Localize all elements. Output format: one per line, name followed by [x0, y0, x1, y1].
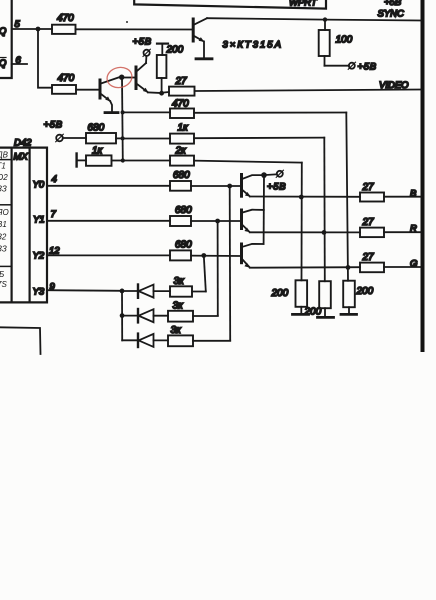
resistor 200 (R pulldown) — [319, 281, 331, 308]
wire to column B2 — [194, 161, 302, 163]
resistor 100 — [319, 20, 353, 66]
resistor 3k (row3) — [168, 335, 193, 346]
wire +5V bus to collectors — [263, 175, 265, 244]
+5V terminal at Q2 collector — [144, 50, 150, 56]
IC D42 multiplexer box — [0, 148, 47, 303]
wire pin6 stub — [12, 63, 27, 65]
IC U2 WPRT box (clipped top) — [134, 0, 326, 9]
wire Q6 emitter row (G) — [250, 266, 360, 269]
wire Y0 node down to diode row3 — [229, 186, 232, 341]
wire Y3 diode bus — [121, 291, 123, 340]
wire — [63, 137, 86, 139]
transistor Q6 (G follower) — [242, 244, 264, 268]
node Y2 junction — [201, 253, 206, 258]
wire to Q4 base — [191, 185, 240, 187]
node junction G/200 — [346, 265, 351, 270]
resistor 1k (mix R) — [123, 138, 170, 140]
resistor 1k (stub) — [86, 155, 112, 165]
+5V terminal at R100 — [349, 63, 355, 69]
resistor 680 (Y0) — [170, 181, 191, 191]
wire — [77, 159, 86, 161]
resistor 470 (mix B) — [123, 111, 171, 113]
node C junction (video emitter node) — [159, 91, 164, 96]
resistor 200 (G pulldown) — [343, 281, 355, 308]
transistor Q3 (sync) — [193, 18, 207, 58]
wire Y1 node down to diode row2 — [217, 221, 219, 316]
wire Q5 emitter row (R) — [250, 231, 360, 233]
wire G out — [384, 266, 421, 268]
wire Q4 emitter row (B) — [250, 196, 360, 198]
node junction sync/R100 — [323, 17, 327, 21]
wire — [112, 160, 124, 162]
wire vertical to B emitter — [301, 163, 303, 281]
+5V terminal at followers — [264, 173, 277, 176]
node B junction (Q1 collector / Q2 base) — [119, 75, 124, 80]
wire B out — [384, 196, 421, 198]
wire vertical to R emitter — [323, 138, 326, 282]
wire to column B — [194, 112, 346, 114]
transistor Q2 — [124, 56, 161, 93]
wire to column R — [194, 137, 324, 140]
D42 left pin labels (clipped) — [0, 151, 9, 290]
wire to Q5 base — [191, 220, 240, 222]
wire to Q6 base — [191, 255, 240, 257]
wire to Q1 base — [76, 89, 99, 91]
resistor 200 (B pulldown) — [296, 280, 308, 307]
resistor 27 (video out) — [169, 87, 195, 96]
node junction B/200 — [299, 195, 304, 200]
ground R — [324, 308, 326, 316]
wire summing bus — [121, 78, 124, 161]
node junctions on bus — [121, 136, 125, 140]
node Y3 junction — [120, 289, 125, 294]
wire row1 up to Y2 — [192, 290, 206, 292]
transistor Q5 (R follower) — [242, 210, 264, 233]
D42 inner dividers — [0, 160, 12, 267]
resistor 27 (B) — [360, 193, 384, 202]
wire corner bottom left — [0, 327, 41, 354]
transistor Q4 (B follower) — [242, 175, 265, 197]
ground B — [300, 307, 302, 314]
resistor 680 (Y2) — [170, 250, 191, 260]
wire node down — [38, 29, 52, 88]
resistor 3k (row2) — [168, 311, 193, 322]
speck — [126, 21, 128, 23]
diode VD2 — [122, 309, 168, 322]
node junction diode row2 — [120, 313, 125, 318]
resistor 680 (summing pullup) — [86, 133, 116, 143]
wire node C to R27 — [162, 91, 169, 94]
wire vertical to G emitter — [346, 113, 348, 281]
resistor 27 (R) — [360, 228, 384, 238]
node +5V junction — [261, 172, 267, 178]
wire SYNC — [207, 18, 421, 20]
wire row2 up to Y1 — [193, 315, 218, 317]
resistor 680 (Y1) — [170, 216, 191, 226]
wire row3 up to Y0 — [193, 340, 230, 342]
red pen circle annotation — [105, 65, 134, 90]
node A junction — [36, 27, 41, 32]
diode VD3 — [122, 334, 168, 347]
resistor 470 (top) — [52, 25, 76, 34]
resistor 470 (second) — [52, 85, 76, 94]
IC U1 trigger box (top left, clipped) — [0, 0, 12, 78]
frame border right — [421, 0, 425, 352]
resistor 200 (pullup near Q2) — [157, 44, 184, 94]
transistor Q1 — [100, 77, 121, 112]
stub terminal 1k — [75, 154, 77, 167]
wire Y2 node down to diode row1 — [204, 256, 206, 292]
node Y1 junction — [215, 219, 220, 224]
node junction R/200 — [322, 230, 327, 235]
node Y0 junction — [227, 184, 232, 189]
wire VIDEO — [195, 90, 422, 92]
resistor 3k (row1) — [170, 286, 192, 296]
wire — [116, 137, 123, 139]
ground Q1 — [105, 111, 118, 114]
wire to Q3 base — [76, 28, 193, 30]
resistor 27 (G) — [360, 263, 384, 273]
diode VD1 — [122, 285, 170, 298]
resistor 2k (mix G) — [123, 160, 170, 162]
+5V terminal at summing 680 — [56, 135, 63, 142]
wire pin5 to node — [12, 28, 52, 30]
wire R out — [384, 231, 421, 233]
ground G — [348, 307, 350, 313]
ground Q3 — [196, 57, 212, 60]
